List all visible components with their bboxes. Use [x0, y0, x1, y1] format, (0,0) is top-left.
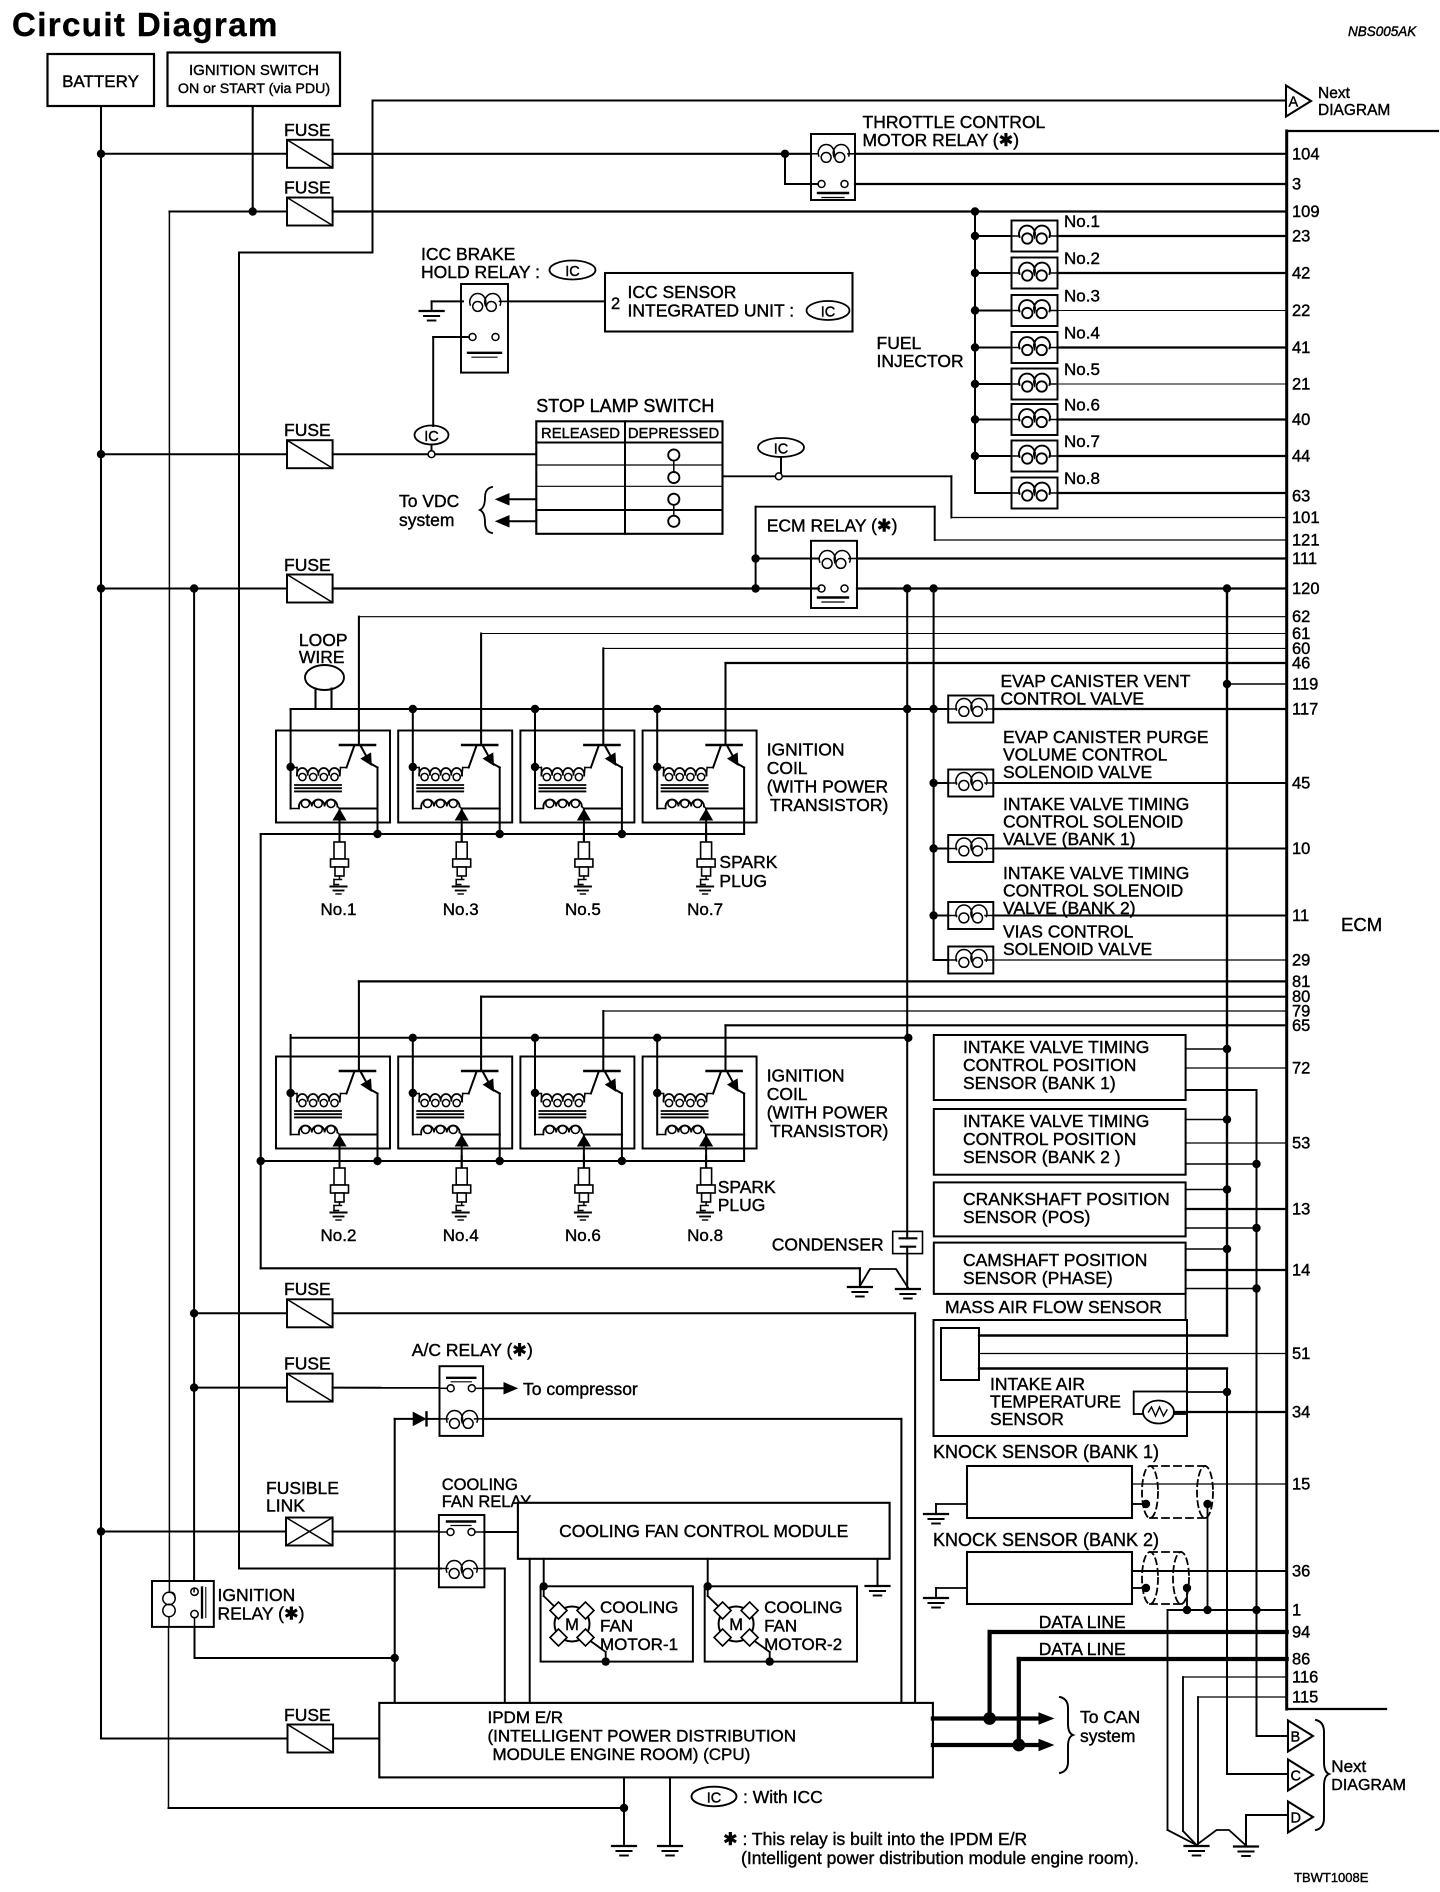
- svg-text:45: 45: [1292, 775, 1310, 793]
- svg-text:ECM: ECM: [1341, 914, 1382, 935]
- svg-text:A: A: [1289, 95, 1299, 111]
- svg-text:No.7: No.7: [687, 900, 723, 919]
- svg-text:41: 41: [1292, 339, 1310, 357]
- svg-text:46: 46: [1292, 655, 1310, 673]
- svg-text:44: 44: [1292, 448, 1310, 466]
- svg-text:D: D: [1291, 1811, 1301, 1827]
- svg-text:15: 15: [1292, 1476, 1310, 1494]
- svg-text:system: system: [1080, 1726, 1135, 1746]
- svg-text:SENSOR: SENSOR: [990, 1409, 1064, 1429]
- svg-text:SOLENOID VALVE: SOLENOID VALVE: [1003, 939, 1152, 959]
- svg-text:FUSE: FUSE: [284, 1354, 331, 1374]
- svg-text:IC: IC: [774, 442, 789, 458]
- svg-text:MOTOR RELAY (✱): MOTOR RELAY (✱): [863, 130, 1020, 150]
- svg-text:NBS005AK: NBS005AK: [1348, 24, 1417, 39]
- svg-text:Next: Next: [1331, 1757, 1366, 1776]
- svg-text:No.8: No.8: [1064, 469, 1100, 488]
- svg-text:3: 3: [1292, 176, 1301, 194]
- svg-text:14: 14: [1292, 1262, 1310, 1280]
- svg-text:A/C RELAY (✱): A/C RELAY (✱): [412, 1340, 533, 1360]
- svg-text:INTAKE VALVE TIMING: INTAKE VALVE TIMING: [963, 1111, 1149, 1131]
- svg-text:Circuit Diagram: Circuit Diagram: [12, 6, 279, 43]
- svg-text:IC: IC: [424, 429, 439, 445]
- svg-text:No.4: No.4: [443, 1226, 479, 1245]
- svg-text:INTEGRATED UNIT :: INTEGRATED UNIT :: [628, 301, 795, 321]
- svg-text:No.1: No.1: [321, 900, 357, 919]
- svg-text:22: 22: [1292, 302, 1310, 320]
- svg-text:SOLENOID VALVE: SOLENOID VALVE: [1003, 762, 1152, 782]
- svg-text:CONTROL POSITION: CONTROL POSITION: [963, 1055, 1136, 1075]
- svg-text:PLUG: PLUG: [718, 1195, 766, 1215]
- svg-text:No.1: No.1: [1064, 212, 1100, 231]
- svg-text:PLUG: PLUG: [719, 871, 767, 891]
- svg-text:42: 42: [1292, 265, 1310, 283]
- svg-text:No.3: No.3: [443, 900, 479, 919]
- svg-text:No.6: No.6: [565, 1226, 601, 1245]
- svg-text:IC: IC: [565, 264, 580, 280]
- svg-text:MOTOR-1: MOTOR-1: [600, 1635, 678, 1654]
- svg-text:FAN: FAN: [600, 1617, 633, 1636]
- svg-text:BATTERY: BATTERY: [62, 72, 139, 91]
- svg-text:COIL: COIL: [767, 1084, 808, 1104]
- svg-text:No.5: No.5: [1064, 360, 1100, 379]
- svg-text:CRANKSHAFT POSITION: CRANKSHAFT POSITION: [963, 1189, 1170, 1209]
- svg-text:116: 116: [1292, 1669, 1318, 1687]
- svg-text:THROTTLE CONTROL: THROTTLE CONTROL: [863, 112, 1046, 132]
- svg-text:11: 11: [1292, 907, 1309, 925]
- svg-text:ECM RELAY (✱): ECM RELAY (✱): [767, 516, 898, 536]
- svg-text:To VDC: To VDC: [399, 491, 459, 511]
- svg-text:117: 117: [1292, 701, 1318, 719]
- svg-text:FAN: FAN: [764, 1617, 797, 1636]
- svg-text:HOLD RELAY :: HOLD RELAY :: [421, 262, 540, 282]
- svg-text:13: 13: [1292, 1201, 1310, 1219]
- svg-text:115: 115: [1292, 1689, 1318, 1707]
- svg-text:TRANSISTOR): TRANSISTOR): [770, 1121, 888, 1141]
- svg-text:IGNITION: IGNITION: [767, 1066, 845, 1086]
- svg-text:2: 2: [611, 295, 620, 313]
- svg-text:120: 120: [1292, 580, 1320, 598]
- svg-text:VALVE (BANK 1): VALVE (BANK 1): [1003, 829, 1136, 849]
- svg-text:CAMSHAFT POSITION: CAMSHAFT POSITION: [963, 1250, 1147, 1270]
- svg-text:10: 10: [1292, 840, 1310, 858]
- svg-text:104: 104: [1292, 146, 1320, 164]
- svg-text:RELAY (✱): RELAY (✱): [218, 1604, 305, 1624]
- svg-text:1: 1: [1292, 1602, 1301, 1620]
- svg-text:No.8: No.8: [687, 1226, 723, 1245]
- svg-text:DIAGRAM: DIAGRAM: [1331, 1777, 1406, 1794]
- svg-text:Next: Next: [1318, 85, 1351, 102]
- svg-text:111: 111: [1292, 550, 1317, 568]
- svg-text:TRANSISTOR): TRANSISTOR): [770, 795, 888, 815]
- svg-text:FUSE: FUSE: [284, 178, 331, 198]
- svg-text:C: C: [1291, 1769, 1301, 1785]
- svg-text:21: 21: [1292, 376, 1310, 394]
- svg-text:To CAN: To CAN: [1080, 1707, 1140, 1727]
- svg-text:DEPRESSED: DEPRESSED: [628, 426, 719, 442]
- svg-text:SPARK: SPARK: [718, 1177, 776, 1197]
- svg-text:To compressor: To compressor: [523, 1379, 638, 1399]
- svg-text:INJECTOR: INJECTOR: [877, 351, 964, 371]
- svg-text:65: 65: [1292, 1017, 1310, 1035]
- svg-text:86: 86: [1292, 1651, 1310, 1669]
- svg-text:No.2: No.2: [1064, 249, 1100, 268]
- svg-text:No.6: No.6: [1064, 396, 1100, 415]
- svg-text:34: 34: [1292, 1404, 1310, 1422]
- svg-text:101: 101: [1292, 509, 1320, 527]
- svg-text:40: 40: [1292, 411, 1310, 429]
- svg-text:B: B: [1291, 1730, 1301, 1746]
- svg-text:No.4: No.4: [1064, 324, 1100, 343]
- svg-text:IGNITION: IGNITION: [218, 1585, 296, 1605]
- svg-text:LINK: LINK: [266, 1496, 305, 1516]
- svg-text:COOLING: COOLING: [764, 1598, 842, 1617]
- svg-text:29: 29: [1292, 952, 1310, 970]
- svg-text:No.5: No.5: [565, 900, 601, 919]
- svg-text:TBWT1008E: TBWT1008E: [1294, 1870, 1369, 1885]
- svg-text:SENSOR (PHASE): SENSOR (PHASE): [963, 1268, 1113, 1288]
- svg-text:(INTELLIGENT POWER DISTRIBUTIO: (INTELLIGENT POWER DISTRIBUTION: [488, 1727, 797, 1746]
- svg-text:23: 23: [1292, 228, 1310, 246]
- svg-text:: With ICC: : With ICC: [743, 1787, 823, 1807]
- svg-text:(Intelligent power distributio: (Intelligent power distribution module e…: [741, 1848, 1139, 1868]
- svg-text:IGNITION: IGNITION: [767, 740, 845, 760]
- svg-text:FUSE: FUSE: [284, 1705, 331, 1725]
- svg-text:WIRE: WIRE: [299, 647, 345, 667]
- svg-text:ON or START (via PDU): ON or START (via PDU): [178, 81, 330, 97]
- svg-text:121: 121: [1292, 532, 1320, 550]
- svg-text:CONTROL VALVE: CONTROL VALVE: [1001, 689, 1145, 709]
- svg-text:FUSE: FUSE: [284, 420, 331, 440]
- svg-text:36: 36: [1292, 1563, 1310, 1581]
- svg-text:ICC SENSOR: ICC SENSOR: [628, 282, 737, 302]
- svg-text:FUSE: FUSE: [284, 1279, 331, 1299]
- svg-text:119: 119: [1292, 676, 1318, 694]
- svg-text:KNOCK SENSOR (BANK 2): KNOCK SENSOR (BANK 2): [933, 1530, 1159, 1550]
- svg-text:94: 94: [1292, 1624, 1310, 1642]
- svg-text:CONDENSER: CONDENSER: [772, 1235, 884, 1255]
- svg-text:No.7: No.7: [1064, 432, 1100, 451]
- svg-text:VALVE (BANK 2): VALVE (BANK 2): [1003, 898, 1136, 918]
- svg-text:system: system: [399, 510, 454, 530]
- svg-text:✱ : This relay is built into t: ✱ : This relay is built into the IPDM E/…: [723, 1829, 1027, 1849]
- svg-text:FUEL: FUEL: [877, 333, 922, 353]
- svg-text:COOLING: COOLING: [442, 1476, 518, 1494]
- svg-text:MODULE ENGINE ROOM) (CPU): MODULE ENGINE ROOM) (CPU): [493, 1745, 751, 1764]
- svg-text:FUSE: FUSE: [284, 555, 331, 575]
- svg-text:DATA LINE: DATA LINE: [1039, 1639, 1126, 1659]
- svg-text:IGNITION SWITCH: IGNITION SWITCH: [189, 62, 319, 79]
- svg-text:M: M: [729, 1616, 743, 1634]
- svg-text:MASS AIR FLOW SENSOR: MASS AIR FLOW SENSOR: [945, 1297, 1162, 1317]
- svg-text:63: 63: [1292, 487, 1310, 505]
- svg-text:No.2: No.2: [321, 1226, 357, 1245]
- svg-text:72: 72: [1292, 1060, 1310, 1078]
- svg-text:DIAGRAM: DIAGRAM: [1318, 102, 1390, 119]
- svg-text:DATA LINE: DATA LINE: [1039, 1612, 1126, 1632]
- svg-text:51: 51: [1292, 1345, 1310, 1363]
- svg-text:(WITH POWER: (WITH POWER: [767, 777, 889, 797]
- svg-text:CONTROL POSITION: CONTROL POSITION: [963, 1129, 1136, 1149]
- svg-text:ICC BRAKE: ICC BRAKE: [421, 244, 515, 264]
- svg-text:62: 62: [1292, 608, 1310, 626]
- svg-text:SPARK: SPARK: [719, 852, 777, 872]
- svg-text:109: 109: [1292, 203, 1320, 221]
- svg-text:SENSOR (POS): SENSOR (POS): [963, 1207, 1090, 1227]
- svg-text:IC: IC: [707, 1791, 722, 1807]
- svg-text:INTAKE VALVE TIMING: INTAKE VALVE TIMING: [963, 1037, 1149, 1057]
- svg-text:STOP LAMP SWITCH: STOP LAMP SWITCH: [536, 396, 714, 416]
- svg-text:MOTOR-2: MOTOR-2: [764, 1635, 842, 1654]
- svg-text:IPDM E/R: IPDM E/R: [488, 1708, 564, 1727]
- svg-text:COIL: COIL: [767, 758, 808, 778]
- svg-text:SENSOR (BANK 1): SENSOR (BANK 1): [963, 1073, 1116, 1093]
- svg-text:53: 53: [1292, 1135, 1310, 1153]
- svg-text:IC: IC: [821, 305, 836, 321]
- svg-text:FUSE: FUSE: [284, 120, 331, 140]
- svg-text:No.3: No.3: [1064, 287, 1100, 306]
- svg-text:SENSOR (BANK 2 ): SENSOR (BANK 2 ): [963, 1147, 1121, 1167]
- svg-text:RELEASED: RELEASED: [541, 426, 620, 442]
- svg-text:M: M: [565, 1616, 579, 1634]
- svg-text:COOLING FAN CONTROL MODULE: COOLING FAN CONTROL MODULE: [559, 1521, 848, 1541]
- svg-text:COOLING: COOLING: [600, 1598, 678, 1617]
- svg-text:(WITH POWER: (WITH POWER: [767, 1103, 889, 1123]
- svg-text:KNOCK SENSOR (BANK 1): KNOCK SENSOR (BANK 1): [933, 1442, 1159, 1462]
